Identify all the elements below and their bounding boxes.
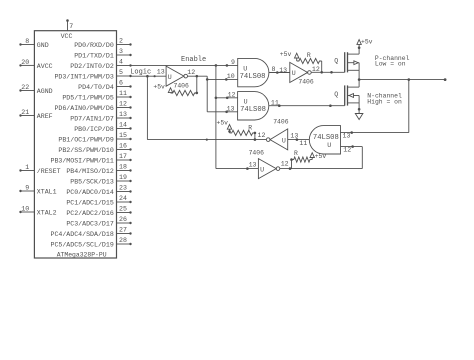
svg-text:10: 10 bbox=[227, 73, 235, 80]
svg-text:20: 20 bbox=[21, 59, 29, 66]
wire: U2a output 8 to U3b input 13 bbox=[269, 71, 290, 74]
pin 12 label of U3b bbox=[312, 66, 320, 73]
+5v supply symbol for R4 bbox=[216, 120, 231, 132]
U3b value label 7406 bbox=[298, 79, 314, 86]
svg-text:PC3/ADC3/D17: PC3/ADC3/D17 bbox=[66, 220, 114, 227]
resistor R2 pull-up on U3b output bbox=[297, 58, 322, 72]
U1 pin 24 (PC1/ADC1/D15) wire and labels bbox=[66, 195, 131, 206]
U1 pin 23 (PC0/ADC0/D14) wire and labels bbox=[66, 185, 131, 196]
U1 pin 11 (PD5/T1/PWM/D5) wire and labels bbox=[62, 90, 131, 101]
inverter U3c 7406 bbox=[258, 159, 279, 179]
U1 pin 20 (AVCC) wire and labels bbox=[19, 59, 52, 70]
U1 pin 1 (/RESET) wire and labels bbox=[19, 164, 60, 175]
svg-text:14: 14 bbox=[119, 122, 127, 129]
svg-text:PC2/ADC2/D16: PC2/ADC2/D16 bbox=[66, 210, 114, 217]
U1 pin 18 (PB4/MISO/D12) wire and labels bbox=[66, 164, 131, 175]
pin 13 label of U3c bbox=[249, 162, 257, 169]
AND gate U2a 74LS08 bbox=[238, 58, 269, 86]
U1 pin 19 (PB5/SCK/D13) wire and labels bbox=[70, 174, 131, 185]
svg-text:18: 18 bbox=[119, 164, 127, 171]
pin 12 label of U3a bbox=[187, 69, 195, 76]
svg-text:PC0/ADC0/D14: PC0/ADC0/D14 bbox=[66, 189, 114, 196]
svg-text:AVCC: AVCC bbox=[37, 63, 53, 70]
svg-text:PB2/SS/PWM/D10: PB2/SS/PWM/D10 bbox=[58, 147, 113, 154]
svg-text:VCC: VCC bbox=[61, 33, 73, 40]
svg-text:8: 8 bbox=[25, 38, 29, 45]
svg-text:12: 12 bbox=[119, 101, 127, 108]
wire: Enable net from U1 pin 4 to U2a pin 9 bbox=[131, 64, 238, 67]
U1 pin 16 (PB2/SS/PWM/D10) wire and labels bbox=[58, 143, 131, 154]
U1 pin 21 (AREF) wire and labels bbox=[19, 109, 52, 120]
pin 13 label of U3a bbox=[157, 68, 165, 75]
svg-text:9: 9 bbox=[25, 184, 29, 191]
U1 pin 9 (XTAL1) wire and labels bbox=[19, 184, 56, 195]
svg-text:22: 22 bbox=[21, 84, 29, 91]
svg-text:12: 12 bbox=[228, 92, 236, 99]
R2 reference label R bbox=[307, 52, 311, 59]
svg-text:PD4/T0/D4: PD4/T0/D4 bbox=[78, 84, 114, 91]
svg-text:R: R bbox=[294, 150, 298, 157]
svg-text:High = on: High = on bbox=[367, 98, 402, 105]
wire: U4 pin 12 input from U3c output bbox=[341, 145, 363, 168]
wire: U3a output 12 to node A bbox=[188, 75, 208, 78]
svg-text:U: U bbox=[260, 167, 264, 174]
wire: Enable vertical bus down to U2b pin 12 and U3c input bbox=[215, 65, 259, 170]
svg-text:PD7/AIN1/D7: PD7/AIN1/D7 bbox=[70, 115, 114, 122]
AND gate U2b 74LS08 bbox=[238, 92, 269, 120]
U1 pin 7 VCC wire bbox=[66, 19, 69, 31]
U3d value label 7406 bbox=[273, 119, 289, 126]
wire: U3c output 12 to U4 pin 12 riser bbox=[280, 167, 363, 170]
svg-text:6: 6 bbox=[119, 80, 123, 87]
svg-text:PB5/SCK/D13: PB5/SCK/D13 bbox=[70, 178, 114, 185]
AND gate U4 74LS08 (mirrored) bbox=[309, 126, 340, 154]
svg-text:13: 13 bbox=[343, 133, 351, 140]
svg-text:11: 11 bbox=[119, 90, 127, 97]
wire: U2a pin 10 input from node A bbox=[207, 78, 238, 81]
wire: node A vertical to U2a pin 10 and U2b pin 13 bbox=[206, 76, 209, 112]
svg-text:PD5/T1/PWM/D5: PD5/T1/PWM/D5 bbox=[62, 94, 113, 101]
svg-text:1: 1 bbox=[25, 164, 29, 171]
U1 pin 28 (PC5/ADC5/SCL/D19) wire and labels bbox=[50, 237, 131, 248]
U1 pin 27 (PC4/ADC4/SDA/D18) wire and labels bbox=[50, 227, 131, 238]
svg-text:PB4/MISO/D12: PB4/MISO/D12 bbox=[66, 168, 114, 175]
Q2 reference label Q bbox=[334, 91, 338, 98]
IC U1 ATMega328P-PU body bbox=[34, 31, 116, 258]
svg-text:13: 13 bbox=[227, 106, 235, 113]
svg-text:ATMega328P-PU: ATMega328P-PU bbox=[57, 252, 107, 259]
U1 pin 5 (PD3/INT1/PWM/D3) wire and labels bbox=[54, 69, 131, 80]
U1 pin 15 (PB1/OC1/PWM/D9) wire and labels bbox=[58, 132, 131, 143]
net label Logic bbox=[130, 68, 151, 76]
U1 pin 6 (PD4/T0/D4) wire and labels bbox=[78, 80, 132, 91]
pin 11 label of U4 bbox=[299, 140, 307, 147]
svg-text:13: 13 bbox=[249, 162, 257, 169]
U1 pin 4 (PD2/INT0/D2) wire and labels bbox=[70, 59, 131, 70]
U1 pin 10 (XTAL2) wire and labels bbox=[19, 205, 56, 216]
svg-text:24: 24 bbox=[119, 195, 127, 202]
svg-text:7406: 7406 bbox=[249, 149, 265, 156]
pin 9 label of U2a bbox=[231, 59, 235, 66]
U1 pin 17 (PB3/MOSI/PWM/D11) wire and labels bbox=[50, 153, 131, 164]
transistor Q1 P-channel MOSFET bbox=[345, 46, 361, 79]
wire: U3b output 12 to Q1 gate bbox=[311, 71, 345, 74]
svg-text:16: 16 bbox=[119, 143, 127, 150]
net label Enable bbox=[181, 56, 206, 64]
resistor R3 pull-up on U3c output bbox=[290, 157, 312, 169]
svg-text:Low = on: Low = on bbox=[375, 61, 406, 68]
wire: U2b pin 12 input from Enable bus bbox=[216, 97, 238, 100]
pin 8 label of U2a bbox=[272, 66, 276, 73]
pin 13 label of U4 bbox=[343, 133, 351, 140]
svg-text:7: 7 bbox=[69, 23, 73, 30]
+5v supply symbol for R1 bbox=[153, 83, 172, 92]
U1 pin 25 (PC2/ADC2/D16) wire and labels bbox=[66, 206, 131, 217]
svg-text:Q: Q bbox=[334, 57, 338, 64]
svg-text:8: 8 bbox=[272, 66, 276, 73]
svg-text:5: 5 bbox=[119, 69, 123, 76]
svg-text:PD0/RXD/D0: PD0/RXD/D0 bbox=[74, 42, 114, 49]
+5v supply symbol for R2 bbox=[280, 51, 299, 58]
svg-text:21: 21 bbox=[21, 109, 29, 116]
U1 pin 2 (PD0/RXD/D0) wire and labels bbox=[74, 38, 131, 49]
pin 12 label of U3d output node bbox=[258, 132, 266, 139]
svg-text:7406: 7406 bbox=[174, 82, 190, 89]
svg-text:U: U bbox=[282, 137, 286, 144]
svg-text:19: 19 bbox=[119, 174, 127, 181]
pin 13 label of U2b bbox=[227, 106, 235, 113]
svg-text:12: 12 bbox=[281, 161, 289, 168]
U1 part label ATMega328P-PU bbox=[57, 252, 107, 259]
svg-text:+5v: +5v bbox=[315, 153, 327, 160]
U1 pin 26 (PC3/ADC3/D17) wire and labels bbox=[66, 216, 131, 227]
svg-text:/RESET: /RESET bbox=[37, 168, 61, 175]
svg-text:2: 2 bbox=[119, 38, 123, 45]
pin 13 label of U3b bbox=[279, 67, 287, 74]
svg-text:27: 27 bbox=[119, 227, 127, 234]
U1 pin 12 (PD6/AIN0/PWM/D6) wire and labels bbox=[54, 101, 131, 112]
svg-text:XTAL2: XTAL2 bbox=[37, 209, 57, 216]
svg-text:R: R bbox=[307, 52, 311, 59]
wire: motor output node from Q1/Q2 drains to terminal bbox=[358, 78, 447, 81]
svg-text:R: R bbox=[248, 124, 252, 131]
svg-text:U: U bbox=[168, 74, 172, 81]
svg-text:15: 15 bbox=[119, 132, 127, 139]
svg-text:PB3/MOSI/PWM/D11: PB3/MOSI/PWM/D11 bbox=[50, 157, 113, 164]
svg-text:7406: 7406 bbox=[273, 119, 289, 126]
svg-text:PC4/ADC4/SDA/D18: PC4/ADC4/SDA/D18 bbox=[50, 231, 113, 238]
svg-text:Logic: Logic bbox=[130, 68, 151, 76]
svg-text:GND: GND bbox=[37, 42, 49, 49]
svg-text:+5v: +5v bbox=[280, 51, 292, 58]
pin 12 label of U2b bbox=[228, 92, 236, 99]
svg-text:10: 10 bbox=[21, 205, 29, 212]
svg-text:13: 13 bbox=[157, 68, 165, 75]
wire: Logic net from U1 pin 5 to U3a input 13 bbox=[131, 75, 167, 78]
svg-text:23: 23 bbox=[119, 185, 127, 192]
svg-text:U: U bbox=[292, 70, 296, 77]
svg-text:26: 26 bbox=[119, 216, 127, 223]
U1 pin 3 (PD1/TXD/D1) wire and labels bbox=[74, 48, 131, 59]
svg-text:7406: 7406 bbox=[298, 79, 314, 86]
svg-text:13: 13 bbox=[279, 67, 287, 74]
svg-text:U: U bbox=[243, 65, 247, 72]
svg-text:Q: Q bbox=[334, 91, 338, 98]
pin 10 label of U2a bbox=[227, 73, 235, 80]
svg-text:28: 28 bbox=[119, 237, 127, 244]
svg-text:+5v: +5v bbox=[153, 83, 165, 90]
wire: Logic net down to U3d output node bbox=[147, 76, 266, 141]
svg-text:4: 4 bbox=[119, 59, 123, 66]
pin 11 label of U2b bbox=[271, 99, 279, 106]
svg-text:74LS08: 74LS08 bbox=[240, 106, 266, 114]
inverter U3b 7406 bbox=[290, 62, 311, 82]
svg-text:12: 12 bbox=[258, 132, 266, 139]
svg-text:PB1/OC1/PWM/D9: PB1/OC1/PWM/D9 bbox=[58, 136, 113, 143]
wire: U2b output 11 to Q2 gate bbox=[269, 104, 345, 107]
svg-text:PC5/ADC5/SCL/D19: PC5/ADC5/SCL/D19 bbox=[50, 241, 113, 248]
svg-text:Enable: Enable bbox=[181, 56, 206, 64]
Q1 reference label Q bbox=[334, 57, 338, 64]
svg-text:PD2/INT0/D2: PD2/INT0/D2 bbox=[70, 63, 114, 70]
U3a value label 7406 bbox=[174, 82, 190, 89]
U3c value label 7406 bbox=[249, 149, 265, 156]
+5v supply symbol at Q1 source bbox=[357, 39, 373, 48]
transistor Q2 N-channel MOSFET bbox=[345, 80, 361, 111]
inverter U3a 7406 bbox=[166, 66, 187, 86]
svg-text:17: 17 bbox=[119, 153, 127, 160]
svg-text:74LS08: 74LS08 bbox=[313, 134, 339, 142]
svg-text:+5v: +5v bbox=[361, 39, 373, 46]
svg-text:PB0/ICP/D8: PB0/ICP/D8 bbox=[74, 126, 114, 133]
svg-text:PC1/ADC1/D15: PC1/ADC1/D15 bbox=[66, 199, 114, 206]
U1 pin 8 (GND) wire and labels bbox=[19, 38, 48, 49]
resistor R1 pull-up on U3a output bbox=[171, 76, 199, 95]
svg-text:13: 13 bbox=[290, 133, 298, 140]
pin 12 label of U4 bbox=[343, 147, 351, 154]
svg-text:3: 3 bbox=[119, 48, 123, 55]
wire: U2b pin 13 input from node A bbox=[207, 111, 237, 114]
svg-text:74LS08: 74LS08 bbox=[240, 73, 266, 81]
R3 reference label R bbox=[294, 150, 298, 157]
svg-text:12: 12 bbox=[312, 66, 320, 73]
svg-text:XTAL1: XTAL1 bbox=[37, 188, 57, 195]
svg-text:11: 11 bbox=[299, 140, 307, 147]
svg-text:+5v: +5v bbox=[216, 120, 228, 127]
resistor R4 pull-up on U3d output bbox=[228, 130, 256, 140]
U1 pin 14 (PB0/ICP/D8) wire and labels bbox=[74, 122, 131, 133]
svg-text:25: 25 bbox=[119, 206, 127, 213]
svg-text:13: 13 bbox=[119, 111, 127, 118]
pin 7 number label bbox=[69, 23, 73, 30]
wire: feedback from output node down to U4 pin 13 bbox=[341, 80, 409, 134]
annotation P-channel Low = on bbox=[375, 55, 410, 67]
+5v supply symbol for R3 bbox=[310, 153, 326, 161]
annotation N-channel High = on bbox=[367, 92, 402, 105]
R4 reference label R bbox=[248, 124, 252, 131]
svg-text:U: U bbox=[244, 99, 248, 106]
ground symbol at Q2 source bbox=[355, 109, 363, 119]
svg-text:U: U bbox=[327, 142, 331, 149]
inverter U3d 7406 (mirrored) bbox=[266, 129, 287, 150]
pin 13 label of U3d bbox=[290, 133, 298, 140]
svg-text:AGND: AGND bbox=[37, 88, 53, 95]
wire: U4 output 11 to U3d input 13 bbox=[288, 138, 310, 141]
svg-text:PD3/INT1/PWM/D3: PD3/INT1/PWM/D3 bbox=[54, 73, 113, 80]
svg-text:11: 11 bbox=[271, 99, 279, 106]
svg-text:PD6/AIN0/PWM/D6: PD6/AIN0/PWM/D6 bbox=[54, 105, 113, 112]
svg-text:12: 12 bbox=[343, 147, 351, 154]
U1 pin 13 (PD7/AIN1/D7) wire and labels bbox=[70, 111, 131, 122]
VCC pin name bbox=[61, 33, 73, 40]
svg-text:9: 9 bbox=[231, 59, 235, 66]
U1 pin 22 (AGND) wire and labels bbox=[19, 84, 52, 95]
pin 12 label of U3c bbox=[281, 161, 289, 168]
svg-text:12: 12 bbox=[187, 69, 195, 76]
svg-text:AREF: AREF bbox=[37, 113, 53, 120]
svg-text:PD1/TXD/D1: PD1/TXD/D1 bbox=[74, 52, 114, 59]
